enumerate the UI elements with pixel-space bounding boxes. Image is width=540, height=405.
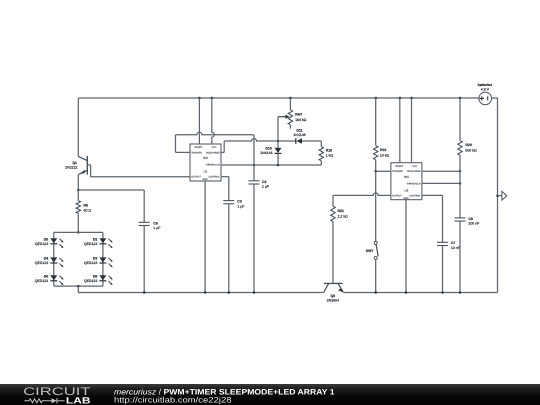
svg-text:R21: R21 bbox=[338, 209, 344, 213]
svg-text:Q1: Q1 bbox=[72, 161, 77, 165]
svg-text:10 nF: 10 nF bbox=[451, 246, 460, 250]
svg-text:CONTROL: CONTROL bbox=[409, 194, 421, 197]
svg-text:QED123: QED123 bbox=[84, 242, 97, 246]
svg-text:QED123: QED123 bbox=[35, 242, 48, 246]
svg-text:VCC: VCC bbox=[211, 146, 216, 149]
svg-text:2N2222: 2N2222 bbox=[65, 165, 77, 169]
svg-text:D10: D10 bbox=[265, 147, 271, 151]
svg-text:D5: D5 bbox=[44, 237, 49, 241]
svg-text:SW7: SW7 bbox=[366, 249, 374, 253]
svg-text:RESET: RESET bbox=[195, 146, 203, 149]
svg-text:4.8 V: 4.8 V bbox=[481, 88, 490, 92]
svg-text:2N3904: 2N3904 bbox=[327, 299, 339, 303]
svg-text:1 µF: 1 µF bbox=[153, 226, 160, 230]
svg-text:500 kΩ: 500 kΩ bbox=[465, 148, 477, 152]
svg-text:100 nF: 100 nF bbox=[468, 221, 479, 225]
svg-text:100 kΩ: 100 kΩ bbox=[295, 118, 307, 122]
svg-text:OUTPUT: OUTPUT bbox=[191, 176, 201, 179]
svg-text:C3: C3 bbox=[237, 200, 242, 204]
svg-text:Q3: Q3 bbox=[330, 294, 335, 298]
svg-text:batteries: batteries bbox=[478, 83, 493, 87]
svg-text:DISCHARGE: DISCHARGE bbox=[407, 170, 421, 173]
svg-text:QED123: QED123 bbox=[84, 261, 97, 265]
svg-text:DISCHARGE: DISCHARGE bbox=[206, 151, 220, 154]
svg-text:LAB: LAB bbox=[66, 396, 91, 405]
svg-text:1N4148: 1N4148 bbox=[293, 133, 305, 137]
svg-text:VCC: VCC bbox=[412, 165, 417, 168]
svg-text:60 Ω: 60 Ω bbox=[84, 209, 92, 213]
svg-text:RH7: RH7 bbox=[295, 113, 302, 117]
svg-text:QED123: QED123 bbox=[35, 261, 48, 265]
svg-text:R19: R19 bbox=[380, 148, 386, 152]
svg-text:TRIGGER: TRIGGER bbox=[191, 151, 202, 154]
svg-text:D2: D2 bbox=[93, 237, 98, 241]
svg-text:1 kΩ: 1 kΩ bbox=[326, 154, 334, 158]
svg-text:http://circuitlab.com/ce22j28: http://circuitlab.com/ce22j28 bbox=[114, 396, 232, 405]
svg-text:GND: GND bbox=[203, 178, 208, 181]
svg-text:U3: U3 bbox=[404, 188, 408, 192]
svg-text:555: 555 bbox=[203, 156, 208, 160]
svg-text:2.2 kΩ: 2.2 kΩ bbox=[338, 214, 349, 218]
svg-text:THRESHOLD: THRESHOLD bbox=[406, 182, 421, 185]
svg-text:D3: D3 bbox=[93, 257, 98, 261]
svg-text:C2: C2 bbox=[262, 180, 267, 184]
svg-text:QED123: QED123 bbox=[35, 279, 48, 283]
svg-text:D8: D8 bbox=[93, 274, 98, 278]
svg-text:U1: U1 bbox=[204, 170, 208, 174]
svg-text:RESET: RESET bbox=[396, 165, 404, 168]
svg-text:R6: R6 bbox=[84, 204, 89, 208]
svg-text:1N4148: 1N4148 bbox=[260, 151, 272, 155]
svg-text:C6: C6 bbox=[153, 221, 158, 225]
svg-text:D11: D11 bbox=[296, 128, 302, 132]
svg-text:R16: R16 bbox=[326, 149, 332, 153]
svg-text:CONTROL: CONTROL bbox=[208, 176, 220, 179]
svg-text:555: 555 bbox=[404, 175, 409, 179]
svg-text:C8: C8 bbox=[468, 217, 473, 221]
svg-text:D4: D4 bbox=[44, 257, 49, 261]
svg-text:C7: C7 bbox=[451, 241, 456, 245]
svg-text:OUTPUT: OUTPUT bbox=[392, 194, 402, 197]
svg-text:10 kΩ: 10 kΩ bbox=[380, 153, 390, 157]
svg-text:1 µF: 1 µF bbox=[237, 204, 244, 208]
svg-text:TRIGGER: TRIGGER bbox=[392, 170, 403, 173]
svg-text:D6: D6 bbox=[44, 274, 49, 278]
svg-text:QED123: QED123 bbox=[84, 279, 97, 283]
svg-text:R20: R20 bbox=[465, 143, 471, 147]
svg-text:THRESHOLD: THRESHOLD bbox=[205, 164, 220, 167]
svg-text:1 µF: 1 µF bbox=[262, 185, 269, 189]
